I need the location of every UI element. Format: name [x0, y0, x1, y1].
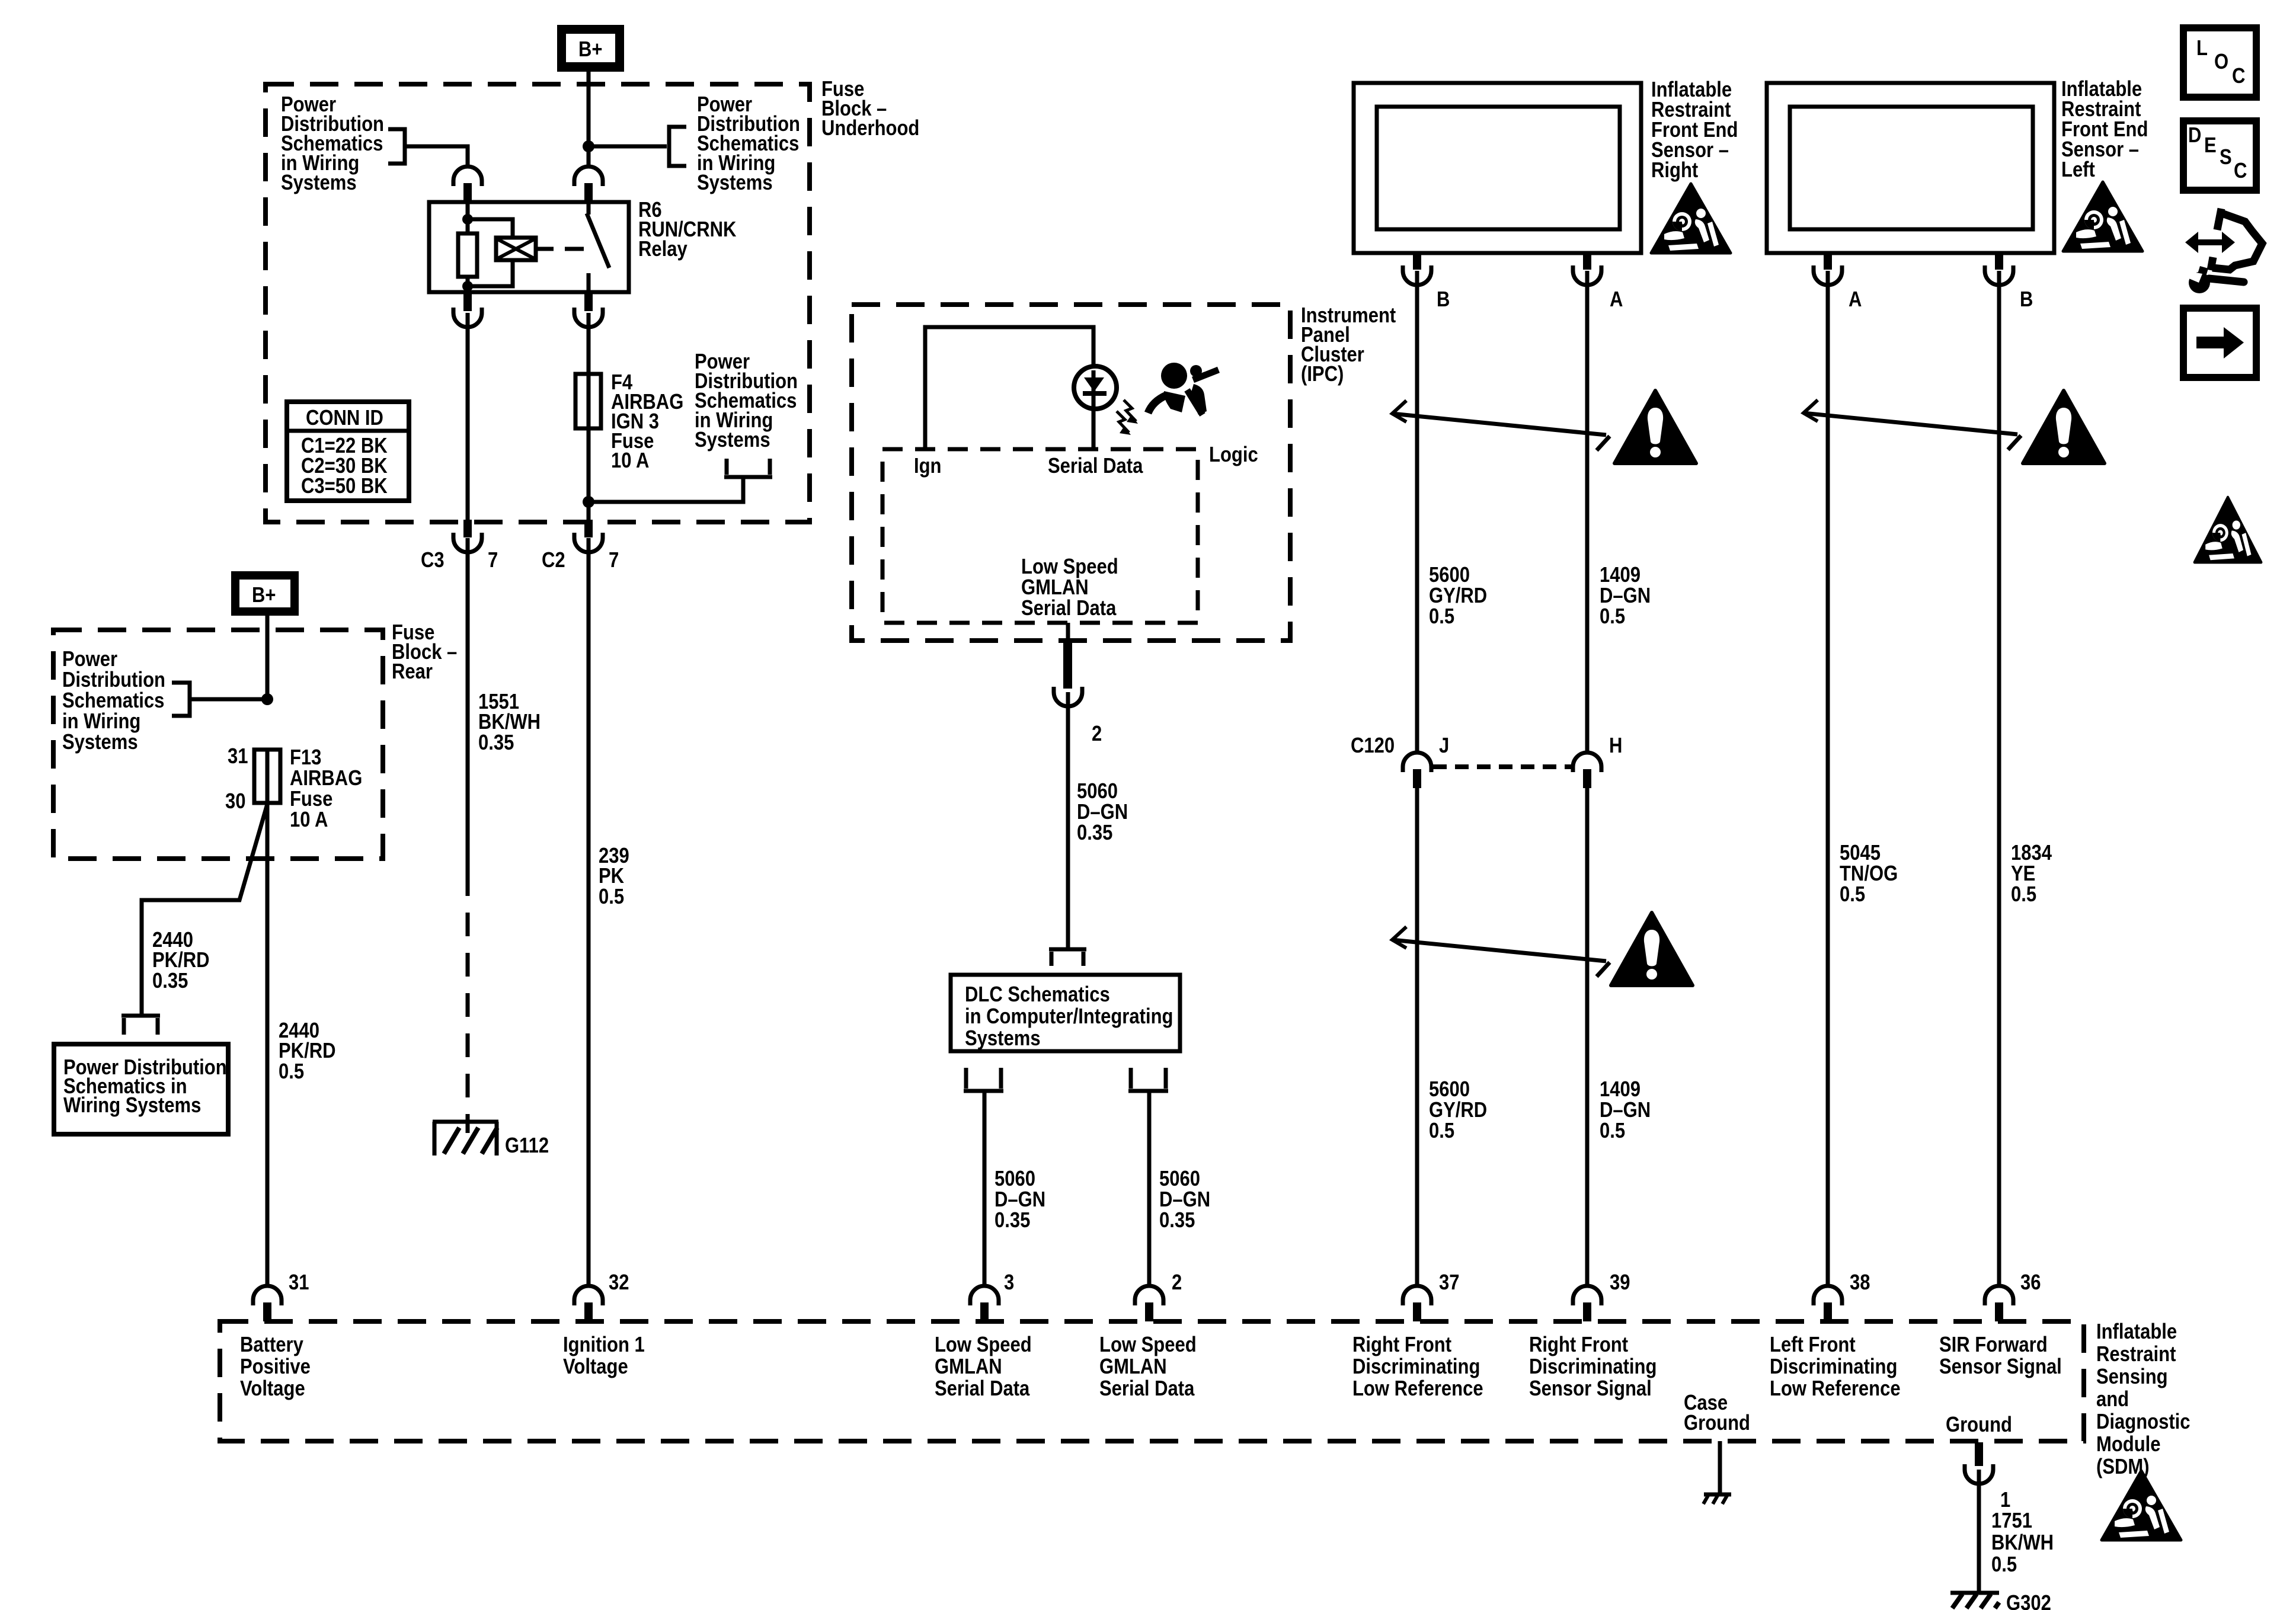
- case ground symbol: [1703, 1494, 1731, 1504]
- svg-text:2: 2: [1092, 722, 1102, 746]
- svg-text:0.5: 0.5: [2011, 882, 2036, 907]
- pin RF B: [1413, 253, 1421, 270]
- connector arc pin3: [970, 1286, 999, 1305]
- wire relay right to F4 fuse: [587, 313, 591, 520]
- ground G112: [433, 1122, 498, 1156]
- connector arc H: [1573, 753, 1601, 772]
- svg-text:Systems: Systems: [281, 171, 357, 195]
- connector arc below relay right: [574, 308, 603, 327]
- wire LED to logic box: [1092, 406, 1096, 449]
- relay switch lower contact: [587, 273, 591, 292]
- svg-text:2: 2: [1172, 1270, 1182, 1295]
- svg-text:GMLAN: GMLAN: [935, 1355, 1002, 1379]
- wire C3 dashed down to G112: [466, 872, 470, 1133]
- svg-text:GMLAN: GMLAN: [1099, 1355, 1167, 1379]
- airbag triangle sidebar: [2195, 497, 2262, 562]
- diagonal branch wire: [142, 804, 267, 1014]
- LED light arrows: [1117, 400, 1138, 435]
- connector arc LF A: [1814, 265, 1842, 285]
- svg-text:Discriminating: Discriminating: [1770, 1355, 1897, 1379]
- connector arc C2: [574, 533, 603, 552]
- node dot bottom of coil: [462, 281, 473, 292]
- airbag triangle SDM: [2102, 1471, 2181, 1540]
- wire bracket to relay left leg: [405, 146, 468, 167]
- connector arc pin31: [253, 1286, 282, 1305]
- svg-text:Battery: Battery: [240, 1333, 303, 1357]
- logic inner dashed box: [882, 449, 1198, 623]
- wrench/arrows icon: [2185, 209, 2262, 293]
- svg-text:B+: B+: [578, 37, 603, 62]
- svg-text:E: E: [2204, 133, 2217, 158]
- svg-text:38: 38: [1850, 1270, 1870, 1295]
- svg-text:0.35: 0.35: [478, 731, 514, 755]
- svg-text:in Computer/Integrating: in Computer/Integrating: [965, 1004, 1173, 1029]
- fuse F13: [254, 750, 280, 803]
- wire RF B down to C120: [1415, 271, 1419, 753]
- power distribution schematics box: [54, 1044, 228, 1134]
- svg-text:Ign: Ign: [914, 454, 942, 478]
- wire below F13 down to SDM: [266, 750, 270, 1286]
- svg-text:J: J: [1439, 734, 1449, 758]
- svg-text:C2: C2: [542, 548, 565, 572]
- wire logic box to connector: [1066, 623, 1070, 646]
- wire J down to SDM: [1415, 785, 1419, 1286]
- RF sensor outer box: [1354, 83, 1641, 253]
- caution triangle LF: [2023, 391, 2105, 463]
- svg-text:0.5: 0.5: [1600, 1119, 1625, 1143]
- ground G302 symbol: [1950, 1593, 1999, 1608]
- svg-text:C120: C120: [1351, 734, 1395, 758]
- svg-text:C: C: [2232, 64, 2245, 88]
- wire DLC right down: [1147, 1091, 1152, 1286]
- LF sensor outer box: [1767, 83, 2054, 253]
- connector arc pin39: [1573, 1286, 1601, 1305]
- crossing arrow LF: [1803, 400, 2021, 450]
- wire bracket to junction: [190, 697, 267, 702]
- coil loop wire: [468, 219, 513, 286]
- svg-text:Discriminating: Discriminating: [1529, 1355, 1657, 1379]
- connector arc LF B: [1985, 265, 2013, 285]
- IPC dashed box: [852, 305, 1290, 641]
- svg-text:A: A: [1849, 287, 1862, 312]
- connector arc pin32: [574, 1286, 603, 1305]
- pin into relay switch: [584, 183, 593, 203]
- svg-text:Diagnostic: Diagnostic: [2096, 1410, 2191, 1434]
- pin C3: [463, 520, 472, 537]
- svg-text:32: 32: [609, 1270, 629, 1295]
- cup bracket above power dist box: [121, 1016, 160, 1035]
- B+ terminal (top): [557, 25, 624, 72]
- svg-text:0.35: 0.35: [1077, 821, 1112, 845]
- pin RF A: [1583, 253, 1591, 270]
- ground wire to G302: [1977, 1470, 1981, 1593]
- svg-text:Right: Right: [1651, 158, 1698, 183]
- node junction dot F4 out: [583, 496, 594, 508]
- fuse F4: [575, 374, 601, 428]
- svg-text:H: H: [1609, 734, 1622, 758]
- svg-text:Serial Data: Serial Data: [1048, 454, 1143, 478]
- LOC box: [2183, 28, 2256, 97]
- ground pin below SDM: [1975, 1442, 1983, 1466]
- svg-text:Discriminating: Discriminating: [1352, 1355, 1480, 1379]
- svg-text:10 A: 10 A: [611, 449, 649, 473]
- connector arc pin37: [1403, 1286, 1431, 1305]
- svg-text:Voltage: Voltage: [240, 1377, 305, 1401]
- case ground wire: [1718, 1441, 1722, 1494]
- connector arc into relay coil: [453, 167, 482, 186]
- svg-text:Serial Data: Serial Data: [935, 1377, 1030, 1401]
- svg-text:3: 3: [1004, 1270, 1014, 1295]
- relay R6 box: [429, 202, 629, 292]
- pin IPC 2: [1063, 643, 1072, 689]
- relay coil box with X: [496, 238, 536, 260]
- svg-text:30: 30: [225, 789, 246, 814]
- cup bracket DLC right out: [1128, 1068, 1168, 1091]
- C120 dashed link J-H: [1433, 764, 1571, 769]
- svg-text:0.35: 0.35: [152, 969, 188, 993]
- airbag triangle RF: [1651, 184, 1731, 253]
- svg-text:and: and: [2096, 1387, 2129, 1411]
- wire below resistor: [466, 277, 470, 292]
- svg-text:Low Speed: Low Speed: [1099, 1333, 1197, 1357]
- connector arc below relay left: [453, 308, 482, 327]
- crossing arrow 1: [1392, 401, 1610, 450]
- svg-text:C3: C3: [421, 548, 445, 572]
- svg-text:0.5: 0.5: [1991, 1553, 2017, 1577]
- power distribution bracket (right): [669, 127, 686, 166]
- svg-text:G112: G112: [505, 1134, 549, 1158]
- caution triangle 1: [1614, 391, 1696, 463]
- pin 3: [980, 1302, 989, 1321]
- svg-text:A: A: [1610, 287, 1623, 312]
- connector arc RF B: [1403, 265, 1431, 285]
- svg-text:Serial Data: Serial Data: [1021, 596, 1117, 620]
- bracket into DLC: [1049, 949, 1086, 966]
- svg-text:Right Front: Right Front: [1529, 1333, 1628, 1357]
- svg-text:Logic: Logic: [1209, 443, 1258, 467]
- RF sensor inner box: [1377, 107, 1620, 229]
- svg-text:0.5: 0.5: [1840, 882, 1865, 907]
- svg-text:Low Speed: Low Speed: [935, 1333, 1032, 1357]
- wire B+ down to junction: [587, 72, 591, 146]
- svg-text:10 A: 10 A: [290, 808, 328, 832]
- connector arc RF A: [1573, 265, 1601, 285]
- svg-text:0.35: 0.35: [1159, 1208, 1195, 1233]
- svg-text:0.35: 0.35: [994, 1208, 1030, 1233]
- svg-text:Ground: Ground: [1946, 1413, 2012, 1437]
- wire C2 down to SDM: [587, 538, 591, 1286]
- svg-text:Rear: Rear: [392, 660, 433, 684]
- connector arc ground: [1965, 1464, 1993, 1484]
- pin 37: [1413, 1302, 1421, 1321]
- wire B+ junction down: [587, 146, 591, 167]
- svg-text:7: 7: [488, 548, 498, 572]
- LF sensor inner box: [1790, 107, 2033, 229]
- pin 2: [1145, 1302, 1153, 1321]
- svg-text:36: 36: [2020, 1270, 2041, 1295]
- svg-text:31: 31: [289, 1270, 309, 1295]
- wire LF A down to SDM: [1826, 271, 1830, 1286]
- svg-text:CONN ID: CONN ID: [306, 406, 383, 430]
- svg-text:Positive: Positive: [240, 1355, 311, 1379]
- svg-text:Serial Data: Serial Data: [1099, 1377, 1195, 1401]
- pin LF B: [1995, 253, 2003, 270]
- svg-text:Systems: Systems: [965, 1026, 1041, 1051]
- pin 36: [1995, 1302, 2003, 1321]
- svg-text:L: L: [2196, 36, 2208, 60]
- svg-text:C: C: [2234, 159, 2247, 183]
- pin below relay right: [584, 292, 593, 311]
- svg-text:Ignition 1: Ignition 1: [563, 1333, 645, 1357]
- pin below relay left: [463, 292, 472, 311]
- arrow box: [2183, 308, 2256, 377]
- svg-text:7: 7: [609, 548, 619, 572]
- svg-text:0.5: 0.5: [1600, 604, 1625, 629]
- svg-text:BK/WH: BK/WH: [1991, 1531, 2054, 1555]
- svg-text:Systems: Systems: [62, 730, 138, 754]
- wire DLC left down: [983, 1091, 987, 1286]
- svg-text:Systems: Systems: [697, 171, 773, 195]
- node junction dot rear: [261, 693, 273, 705]
- airbag triangle LF: [2063, 182, 2142, 251]
- wire junction to right bracket: [589, 145, 667, 149]
- LED indicator circle: [1074, 366, 1117, 409]
- power distribution bracket (left): [388, 129, 405, 164]
- svg-text:0.5: 0.5: [279, 1060, 304, 1084]
- relay switch blade: [587, 202, 609, 268]
- svg-text:S: S: [2220, 145, 2232, 169]
- pin LF A: [1824, 253, 1832, 270]
- svg-text:G302: G302: [2006, 1591, 2051, 1610]
- connector arc pin2: [1135, 1286, 1163, 1305]
- svg-text:0.5: 0.5: [1429, 604, 1454, 629]
- CONN ID table: [287, 402, 409, 501]
- SDM dashed box: [220, 1321, 2084, 1441]
- svg-text:Restraint: Restraint: [2096, 1342, 2176, 1366]
- svg-text:Systems: Systems: [695, 428, 770, 452]
- svg-text:Underhood: Underhood: [821, 116, 919, 140]
- svg-text:39: 39: [1610, 1270, 1630, 1295]
- svg-text:Relay: Relay: [638, 237, 687, 261]
- node dot top of coil: [462, 214, 473, 225]
- svg-text:B+: B+: [252, 583, 276, 607]
- wire IPC to DLC: [1066, 692, 1070, 949]
- cup bracket DLC left out: [964, 1068, 1003, 1091]
- svg-text:Low Reference: Low Reference: [1352, 1377, 1483, 1401]
- pin H: [1583, 769, 1591, 788]
- svg-text:Left: Left: [2061, 158, 2095, 182]
- svg-text:0.5: 0.5: [599, 885, 624, 909]
- svg-text:Inflatable: Inflatable: [2096, 1320, 2177, 1344]
- airbag person icon: [1148, 363, 1219, 415]
- node junction dot: [583, 140, 594, 152]
- svg-text:B: B: [2020, 287, 2033, 312]
- wire LF B down to SDM: [1997, 271, 2001, 1286]
- svg-text:SIR Forward: SIR Forward: [1939, 1333, 2048, 1357]
- svg-text:Wiring Systems: Wiring Systems: [63, 1093, 201, 1118]
- svg-text:(IPC): (IPC): [1301, 362, 1344, 386]
- svg-text:Ground: Ground: [1684, 1411, 1750, 1435]
- wire from bracket to junction: [589, 477, 743, 502]
- svg-text:Left Front: Left Front: [1770, 1333, 1856, 1357]
- DESC box: [2183, 121, 2256, 190]
- pin 32: [584, 1302, 593, 1321]
- connector arc C3: [453, 533, 482, 552]
- LED diode: [1092, 370, 1096, 392]
- svg-text:B: B: [1437, 287, 1450, 312]
- bracket (rear block): [172, 683, 190, 716]
- connector arc pin36: [1985, 1286, 2013, 1305]
- svg-text:DLC Schematics: DLC Schematics: [965, 982, 1110, 1007]
- svg-text:Right Front: Right Front: [1352, 1333, 1451, 1357]
- svg-text:Sensor Signal: Sensor Signal: [1529, 1377, 1652, 1401]
- pin 38: [1824, 1302, 1832, 1321]
- caution triangle 2: [1611, 913, 1693, 985]
- connector arc into relay switch: [574, 167, 603, 186]
- pin into relay: [463, 183, 472, 203]
- svg-text:Low Reference: Low Reference: [1770, 1377, 1901, 1401]
- svg-text:0.5: 0.5: [1429, 1119, 1454, 1143]
- pin C2: [584, 520, 593, 537]
- fuse block rear dashed box: [53, 630, 383, 859]
- connector arc IPC 2: [1054, 687, 1082, 706]
- svg-text:Voltage: Voltage: [563, 1355, 628, 1379]
- wire B+ down: [266, 616, 270, 699]
- svg-text:Sensing: Sensing: [2096, 1365, 2168, 1389]
- svg-text:Module: Module: [2096, 1432, 2161, 1457]
- wire H down to SDM: [1585, 785, 1590, 1286]
- svg-text:37: 37: [1439, 1270, 1460, 1295]
- coil actuation line to switch (dashed): [536, 247, 554, 251]
- pin J: [1413, 769, 1421, 788]
- pin 39: [1583, 1302, 1591, 1321]
- cup bracket below power distribution text: [724, 459, 772, 477]
- fuse block underhood dashed box: [266, 84, 810, 522]
- wire ign loop: [925, 327, 1093, 449]
- relay coil left leg wire: [466, 202, 470, 235]
- svg-text:1751: 1751: [1991, 1509, 2032, 1533]
- B+ terminal (rear): [231, 571, 299, 616]
- connector arc J: [1403, 753, 1431, 772]
- connector arc pin38: [1814, 1286, 1842, 1305]
- DLC schematics box: [951, 975, 1180, 1051]
- wire C3 solid down: [466, 538, 470, 872]
- pin 31: [263, 1302, 271, 1321]
- wire RF A down to C120: [1585, 271, 1590, 753]
- svg-text:Sensor Signal: Sensor Signal: [1939, 1355, 2062, 1379]
- svg-text:D: D: [2188, 123, 2201, 148]
- svg-text:C3=50 BK: C3=50 BK: [301, 474, 388, 498]
- svg-text:O: O: [2214, 50, 2228, 74]
- crossing arrow 2: [1392, 927, 1610, 977]
- wire relay left to C3: [466, 313, 470, 520]
- resistor (relay coil resistor): [458, 233, 477, 277]
- svg-text:31: 31: [228, 744, 248, 769]
